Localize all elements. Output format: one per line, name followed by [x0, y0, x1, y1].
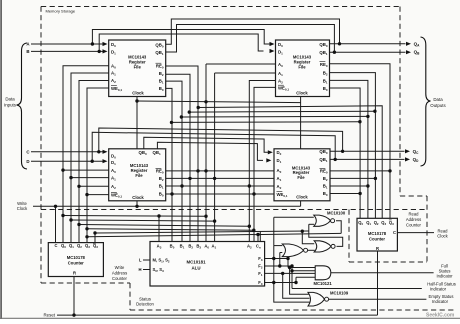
wire U1.B0 vertical to ALU.B0 — [166, 88, 172, 241]
svg-text:File: File — [298, 65, 306, 70]
svg-text:WE0,1: WE0,1 — [278, 85, 289, 91]
wire gate5 in3 from F0 — [274, 283, 310, 302]
junction U4.B1 read bus — [366, 184, 369, 187]
junction rb4 left — [85, 235, 88, 238]
wire ALU L input — [143, 259, 150, 261]
svg-text:A2: A2 — [278, 78, 283, 84]
junction gate5 in1 tap — [288, 266, 291, 269]
read counter border left — [348, 210, 350, 263]
status detection border top — [41, 209, 427, 211]
wire gate4 in2 — [292, 270, 315, 272]
junction U3.WE bus — [85, 193, 88, 196]
svg-text:Indicator: Indicator — [430, 286, 447, 291]
wire gate1 in2 stub — [309, 223, 314, 225]
junction clock rail U2.A0 vertical — [204, 100, 207, 103]
svg-text:QB1: QB1 — [319, 157, 327, 163]
junction r5 right — [358, 120, 361, 123]
wire rail r4 — [181, 115, 368, 118]
svg-text:Outputs: Outputs — [430, 103, 446, 108]
svg-text:A2: A2 — [247, 244, 252, 250]
wire U2.A0 stub — [206, 63, 276, 65]
junction reset write counter — [72, 313, 75, 316]
wire input A line — [31, 43, 103, 45]
wire gate5 in1 from F3 node — [290, 268, 310, 295]
wire reset to write counter R — [73, 277, 75, 316]
svg-text:F3: F3 — [258, 256, 263, 262]
svg-text:B1: B1 — [159, 184, 164, 190]
junction U4.A0 line — [204, 169, 207, 172]
wire rail rb0 — [63, 215, 206, 218]
svg-text:D1: D1 — [111, 49, 116, 55]
border jog — [400, 195, 427, 197]
svg-text:B0: B0 — [323, 86, 328, 92]
junction U3 clock / write clock — [135, 205, 138, 208]
wire rail rb1 — [71, 220, 215, 221]
wire gate4 in1 — [288, 267, 315, 269]
memory storage border right — [399, 7, 401, 197]
wire output QC line — [330, 150, 405, 152]
data outputs brace — [421, 37, 431, 166]
junction F0 gate3 — [272, 281, 275, 284]
svg-text:MC10121: MC10121 — [314, 281, 333, 286]
memory storage border bottom — [41, 282, 130, 284]
svg-text:Cn: Cn — [256, 244, 261, 250]
svg-text:Write: Write — [115, 265, 125, 270]
junction clock rail — [135, 99, 138, 102]
svg-text:Clock: Clock — [132, 91, 144, 96]
svg-text:QB1: QB1 — [155, 50, 163, 56]
NOR gate U5b MC10100 — [314, 241, 335, 252]
svg-text:Q1: Q1 — [69, 243, 74, 249]
junction F3 gate3 — [272, 257, 275, 260]
svg-text:Q1: Q1 — [366, 220, 371, 226]
arrowhead A bus into U2.D0 — [270, 42, 275, 46]
junction U3.A0 bus — [61, 168, 64, 171]
svg-text:ALU: ALU — [191, 265, 200, 270]
svg-text:D: D — [26, 159, 29, 164]
svg-text:Indicator: Indicator — [436, 273, 453, 278]
junction F3 gate4 — [286, 257, 289, 260]
wire F0 to gate4 in4 — [295, 277, 297, 282]
junction F2 gate3 — [278, 264, 281, 267]
svg-text:B3: B3 — [196, 244, 201, 250]
svg-text:Q3: Q3 — [389, 220, 394, 226]
svg-text:B2: B2 — [188, 244, 193, 250]
junction A branch — [91, 42, 94, 45]
svg-text:Q0: Q0 — [61, 243, 66, 249]
svg-text:A2: A2 — [111, 184, 116, 190]
junction U4.B0 read bus — [358, 192, 361, 195]
junction C branch — [97, 150, 100, 153]
junction ALU.A3 riser — [157, 214, 160, 217]
svg-text:QB0: QB0 — [139, 150, 147, 156]
arrowhead C into U3.D0 — [103, 150, 108, 154]
wire gate3 in2 vertical to F2 — [279, 253, 281, 267]
svg-text:D1: D1 — [111, 160, 116, 166]
svg-text:File: File — [134, 65, 142, 70]
svg-text:Counter: Counter — [406, 223, 422, 228]
junction U4.B2 read bus — [374, 177, 377, 180]
junction F2 half-full tap — [290, 269, 293, 272]
junction U3.A1 bus — [69, 176, 72, 179]
arrowhead QA — [406, 42, 411, 46]
svg-text:Clock: Clock — [132, 195, 144, 200]
svg-text:R: R — [376, 246, 379, 251]
svg-text:L: L — [139, 258, 142, 263]
write counter MC10178 box — [48, 243, 103, 277]
wire rail rb2 — [79, 225, 249, 227]
wire U2.B2 vertical to read counter Q2 — [330, 73, 376, 219]
memory storage border top — [41, 6, 400, 8]
wire U1.QB0 to QA rail — [166, 19, 340, 44]
data inputs brace — [17, 43, 28, 169]
svg-text:A1: A1 — [278, 71, 283, 77]
wire rail rb4 Cn rail — [87, 233, 341, 236]
wire U1.B1 vertical to ALU.B1 — [166, 81, 182, 241]
svg-text:H: H — [138, 267, 141, 272]
svg-text:A2: A2 — [111, 78, 116, 84]
svg-text:B2: B2 — [159, 176, 164, 182]
junction rb0 left — [61, 214, 64, 217]
register file U4 MC10143 box — [274, 149, 330, 201]
wire write bus Q3bar — [94, 233, 96, 243]
scan edge bottom — [0, 317, 460, 319]
svg-text:A0: A0 — [111, 168, 116, 174]
wire U2.B1 vertical to read counter Q1 — [330, 80, 368, 218]
wire ALU.Cn riser — [257, 235, 259, 242]
junction rb3 U2.WE — [252, 229, 255, 232]
svg-text:C: C — [393, 230, 396, 235]
svg-text:MC10181: MC10181 — [186, 260, 206, 265]
svg-text:B1: B1 — [323, 78, 328, 84]
svg-text:D0: D0 — [111, 153, 116, 159]
svg-text:F1: F1 — [258, 271, 263, 277]
svg-text:B2: B2 — [323, 176, 328, 182]
svg-text:Inputs: Inputs — [4, 102, 17, 107]
wire read clock line — [397, 232, 434, 234]
svg-text:A3: A3 — [157, 244, 162, 250]
wire gate3 in2 — [280, 252, 283, 254]
svg-text:Q3: Q3 — [381, 220, 386, 226]
svg-text:File: File — [135, 173, 143, 178]
svg-text:QC: QC — [413, 149, 420, 155]
svg-text:QA: QA — [414, 41, 421, 47]
wire gate3 in1 — [274, 245, 283, 247]
svg-text:A1: A1 — [277, 176, 282, 182]
wire rail r3 — [189, 110, 375, 113]
svg-text:MC10178: MC10178 — [368, 231, 387, 236]
arrowhead B bus into U2.D1 — [270, 49, 275, 53]
wire U1.A2 / write bus Q2 — [79, 81, 109, 243]
wire to gate2 input — [302, 231, 314, 244]
svg-text:File: File — [297, 175, 305, 180]
AND gate U7 MC10121 — [315, 266, 331, 280]
wire U3.QB1 to U4.D1 rail — [157, 142, 263, 160]
wire output QA line — [330, 43, 406, 45]
svg-text:B: B — [26, 49, 29, 54]
wire U3.A2 stub — [79, 185, 109, 187]
junction U4.A1 line — [213, 177, 216, 180]
wire U2.A0 vertical to ALU.A0 — [205, 64, 207, 242]
wire U1.B2 vertical to ALU.B2 — [166, 74, 190, 241]
wire write clock line — [33, 205, 301, 207]
junction QB wire-OR — [333, 51, 336, 54]
wire D to QD line rail — [92, 132, 335, 161]
wire U3.B0 to U4.WE line — [166, 193, 274, 195]
svg-text:QB0: QB0 — [155, 43, 163, 49]
wire C to QC line rail — [99, 128, 343, 152]
wire ALU.F2 line — [265, 265, 292, 267]
svg-text:F2: F2 — [258, 264, 263, 270]
arrowhead QB — [406, 50, 411, 54]
arrowhead QD — [405, 157, 410, 161]
junction rb1 left — [69, 218, 72, 221]
junction r4 right — [366, 115, 369, 118]
wire ALU.F0 line — [265, 282, 296, 284]
svg-text:B0: B0 — [170, 244, 175, 250]
svg-text:A2: A2 — [277, 184, 282, 190]
wire U3.B1 to U4.A2 line — [166, 185, 274, 187]
svg-text:QB1: QB1 — [153, 150, 161, 156]
svg-text:Address: Address — [406, 217, 421, 222]
svg-text:A0: A0 — [204, 244, 209, 250]
svg-text:MC10100: MC10100 — [327, 210, 346, 215]
junction U3.RE line — [196, 169, 199, 172]
wire F3 to gate4 in1 — [287, 259, 289, 268]
NOR gate U8 MC10109 — [308, 292, 329, 306]
wire U4.RE stub — [330, 170, 390, 172]
scan edge left — [0, 0, 2, 319]
svg-text:Data: Data — [5, 97, 15, 102]
junction latch rail left — [93, 231, 96, 234]
wire rail r2 to read counter Q3 — [198, 106, 382, 219]
svg-text:D0: D0 — [277, 150, 282, 156]
wire U3.Clock down — [136, 201, 138, 207]
junction F2 gate4 — [290, 264, 293, 267]
svg-text:Clock: Clock — [17, 206, 28, 211]
wire gate1 output feedback — [336, 221, 341, 234]
wire U3.RE to U4.A0 line — [166, 170, 274, 172]
wire U3.QB0 to U4.D0 rail — [144, 137, 270, 152]
wire U3.B2 to U4.A1 line — [166, 177, 274, 179]
junction B1 line — [180, 184, 183, 187]
wire U2.A1 stub — [215, 72, 276, 74]
wire clock rail U1 to U2 — [137, 101, 301, 103]
svg-text:D1: D1 — [278, 49, 283, 55]
wire B to U2.D1 rail — [99, 34, 263, 51]
svg-text:Q3: Q3 — [93, 243, 98, 249]
svg-text:Clock: Clock — [296, 195, 308, 200]
wire rail r5 — [172, 121, 360, 124]
read counter MC10178 box — [357, 218, 397, 251]
junction B0 line — [170, 192, 173, 195]
svg-text:MC10109: MC10109 — [330, 290, 349, 295]
wire gate1 in1 rail — [274, 216, 314, 218]
wire rail rb3 — [87, 229, 254, 230]
wire empty status line — [329, 298, 427, 300]
svg-text:D0: D0 — [278, 42, 283, 48]
svg-text:B0: B0 — [323, 191, 328, 197]
svg-text:Detection: Detection — [136, 302, 154, 307]
wire A to U2.D0 rail — [92, 30, 269, 45]
junction rb3 left — [85, 227, 88, 230]
arrowhead C bus into U4.D0 — [268, 150, 273, 154]
svg-text:R: R — [73, 270, 76, 275]
svg-text:QD: QD — [413, 157, 420, 163]
wire U2.WE vertical — [254, 87, 276, 241]
wire input D line — [31, 160, 103, 162]
arrowhead A into U1.D0 — [103, 42, 108, 46]
svg-text:Q3: Q3 — [85, 243, 90, 249]
svg-text:B1: B1 — [323, 184, 328, 190]
junction F0 gate4 — [294, 281, 297, 284]
wire gate2 output cross-couple to gate1 in2 — [309, 224, 343, 246]
svg-text:F0: F0 — [258, 280, 263, 286]
arrowhead D into U3.D1 — [103, 159, 108, 163]
svg-text:MC10178: MC10178 — [67, 255, 86, 260]
wire U4.B2 stub — [330, 177, 375, 179]
wire ALU.A3 riser — [158, 216, 160, 242]
svg-text:A0: A0 — [277, 168, 282, 174]
svg-text:A1: A1 — [111, 176, 116, 182]
svg-text:M, S1, S2: M, S1, S2 — [153, 258, 170, 264]
svg-text:Indicator: Indicator — [432, 299, 449, 304]
wire U2.Clock to U4 top — [300, 97, 302, 149]
junction U4.WE line — [252, 192, 255, 195]
junction r4 left — [180, 115, 183, 118]
svg-text:SeekIC.com: SeekIC.com — [426, 313, 455, 319]
svg-text:Reset: Reset — [44, 312, 56, 317]
wire full status line — [331, 272, 434, 274]
svg-text:B2: B2 — [323, 71, 328, 77]
NOR gate U6 — [282, 244, 307, 257]
wire half-full status line — [292, 288, 422, 290]
svg-text:Data: Data — [433, 97, 443, 102]
wire gate1 in1 vertical upper — [273, 217, 275, 245]
arrowhead QC — [405, 149, 410, 153]
svg-text:QB: QB — [414, 50, 421, 56]
junction r5 left — [170, 121, 173, 124]
status detection border bottom — [130, 309, 456, 311]
junction U3.A2 bus — [77, 185, 80, 188]
junction QD wire-OR — [334, 158, 337, 161]
register file U2 MC10143 box — [276, 40, 330, 97]
junction U4.RE read bus — [388, 169, 391, 172]
junction QC wire-OR — [341, 150, 344, 153]
wire output QB line — [330, 51, 406, 53]
svg-text:Q2: Q2 — [374, 220, 379, 226]
svg-text:QB0: QB0 — [319, 42, 327, 48]
svg-text:Q2: Q2 — [77, 243, 82, 249]
svg-text:D0: D0 — [111, 42, 116, 48]
wire U1.A1 / write bus Q1 — [71, 73, 109, 243]
wire gate3 vertical to F0 — [273, 246, 275, 283]
svg-text:Counter: Counter — [369, 236, 385, 241]
wire F2 to gate4 in2 and half-full — [291, 266, 293, 289]
svg-text:D1: D1 — [277, 158, 282, 164]
arrowhead D bus into U4.D1 — [266, 158, 271, 162]
wire reset line — [57, 314, 378, 316]
svg-text:A0: A0 — [278, 62, 283, 68]
wire reset to read counter R — [377, 251, 379, 315]
wire output QD line — [330, 158, 405, 160]
wire U4.Clock down — [300, 201, 302, 207]
svg-text:QB1: QB1 — [319, 50, 327, 56]
read counter border bottom — [349, 261, 427, 263]
svg-text:RE0: RE0 — [320, 62, 328, 68]
wire U1.RE vertical to ALU.B3 — [166, 66, 198, 242]
NOR gate U5a MC10100 — [314, 215, 335, 226]
svg-text:C: C — [55, 243, 58, 248]
svg-text:WE0,1: WE0,1 — [111, 192, 122, 198]
ALU MC10181 box — [150, 242, 265, 287]
svg-text:A1: A1 — [211, 244, 216, 250]
junction Cn riser — [256, 233, 259, 236]
svg-text:Counter: Counter — [68, 260, 84, 265]
junction rb2 left — [77, 223, 80, 226]
svg-text:B2: B2 — [159, 71, 164, 77]
svg-text:WE0,1: WE0,1 — [277, 192, 288, 198]
junction B branch — [98, 50, 101, 53]
svg-text:Address: Address — [112, 271, 127, 276]
junction F1 gate5 — [281, 272, 284, 275]
svg-text:Clock: Clock — [296, 91, 308, 96]
svg-text:B1: B1 — [159, 79, 164, 85]
wire U4.B1 stub — [330, 185, 368, 187]
wire U2.RE vertical to read counter — [330, 64, 391, 219]
wire write clock to counter C — [55, 206, 57, 242]
wire ALU.F1 line to gate4 in3 — [265, 272, 316, 274]
wire U1.Clock to U3 top — [136, 97, 138, 149]
svg-text:B1: B1 — [180, 244, 185, 250]
svg-text:B0: B0 — [159, 86, 164, 92]
junction rb0 right — [204, 215, 207, 218]
svg-text:Clock: Clock — [437, 233, 448, 238]
junction D branch — [91, 160, 94, 163]
junction rb2 right — [248, 225, 251, 228]
wire U1.QB1 to QB rail — [166, 25, 335, 53]
wire U3.A1 stub — [71, 177, 109, 179]
svg-text:A0: A0 — [111, 63, 116, 69]
wire ALU.F3 line — [265, 258, 288, 260]
junction r3 left — [188, 110, 191, 113]
junction r3 right — [373, 110, 376, 113]
svg-text:WE0,1: WE0,1 — [111, 86, 122, 92]
wire U3.WE stub — [87, 194, 109, 196]
junction rb1 right — [213, 219, 216, 222]
arrowhead B into U1.D1 — [103, 49, 108, 53]
junction QA wire-OR — [338, 42, 341, 45]
wire input C line — [31, 151, 103, 153]
svg-text:Counter: Counter — [112, 276, 128, 281]
wire U2.B0 vertical to read counter Q0 — [330, 88, 361, 218]
junction write clock to counter — [54, 205, 57, 208]
svg-text:B0: B0 — [159, 192, 164, 198]
svg-text:Memory Storage: Memory Storage — [46, 9, 76, 14]
wire rail to latch — [95, 231, 309, 233]
svg-text:RE0: RE0 — [320, 169, 328, 175]
svg-text:Q0: Q0 — [358, 220, 363, 226]
wire latch rail riser to ALU — [259, 232, 261, 242]
memory storage border left — [40, 7, 42, 284]
wire U1.WE / write bus Q3 — [87, 88, 109, 243]
junction r2 left — [197, 106, 200, 109]
svg-text:S0, S3: S0, S3 — [153, 267, 165, 273]
junction B2 line — [188, 177, 191, 180]
wire input B line — [31, 50, 103, 52]
svg-text:QB0: QB0 — [319, 149, 327, 155]
wire ALU H input — [143, 269, 150, 271]
